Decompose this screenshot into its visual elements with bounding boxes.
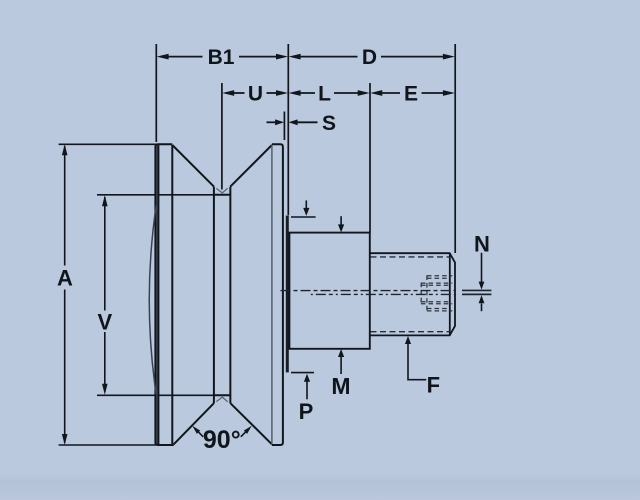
svg-text:P: P xyxy=(299,399,314,424)
svg-text:M: M xyxy=(331,373,350,399)
svg-text:N: N xyxy=(474,231,490,256)
svg-text:90°: 90° xyxy=(203,426,241,454)
svg-text:E: E xyxy=(404,83,418,106)
svg-text:B1: B1 xyxy=(208,46,235,69)
svg-text:F: F xyxy=(427,372,440,397)
svg-text:V: V xyxy=(98,309,113,334)
svg-text:A: A xyxy=(57,266,73,291)
svg-text:S: S xyxy=(322,112,336,135)
svg-text:U: U xyxy=(248,83,263,106)
svg-text:D: D xyxy=(362,46,377,69)
svg-text:L: L xyxy=(318,83,331,106)
